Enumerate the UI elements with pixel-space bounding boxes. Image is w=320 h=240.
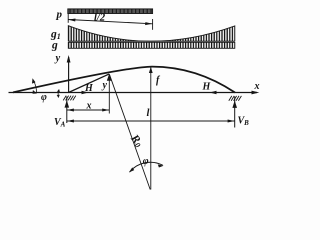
support B hatching — [229, 96, 242, 101]
svg-text:y: y — [102, 80, 108, 91]
svg-text:y: y — [54, 53, 61, 64]
load g1 curved hatched area — [68, 26, 235, 42]
reaction V_B arrow — [234, 97, 236, 128]
x-axis arrowhead — [252, 91, 260, 95]
label R0 — [127, 132, 145, 150]
thrust H at A arrow — [69, 92, 85, 94]
svg-text:φ: φ — [41, 92, 47, 103]
dimension l/2 left arrowhead — [68, 19, 75, 22]
svg-text:x: x — [254, 81, 260, 92]
dimension l/2 left tick — [67, 9, 69, 23]
ordinate arrowhead at M — [107, 74, 112, 81]
load g1 baseline — [68, 40, 235, 42]
svg-text:H: H — [202, 82, 212, 93]
center vertical line (f, l, vertex) — [150, 67, 152, 190]
angle arc phi at left — [33, 80, 37, 93]
svg-text:p: p — [56, 9, 63, 21]
support A hatching — [63, 96, 76, 101]
svg-text:g: g — [51, 40, 58, 52]
dimension l/2 right arrowhead — [145, 22, 152, 25]
svg-text:H: H — [84, 83, 94, 94]
dimension l/2 right tick — [152, 19, 154, 30]
x-axis — [9, 92, 258, 94]
radius R0 line — [109, 74, 150, 189]
ordinate y line at M — [108, 75, 110, 114]
angle arc phi at vertex — [130, 162, 163, 172]
svg-text:x: x — [86, 101, 92, 112]
small angle mark at origin A — [57, 90, 60, 98]
y-axis arrowhead — [67, 55, 71, 63]
y-axis — [68, 57, 70, 93]
load g uniform hatched bar — [68, 42, 235, 48]
svg-text:l: l — [147, 108, 150, 119]
thrust H at B arrow — [210, 92, 234, 94]
svg-text:l/2: l/2 — [94, 13, 106, 24]
f arrow tick at crown — [149, 67, 153, 73]
dimension x line — [67, 109, 110, 111]
load p hatched bar — [68, 9, 153, 14]
svg-text:φ: φ — [143, 156, 149, 167]
reaction V_A arrow — [66, 97, 68, 124]
cable curve — [13, 67, 235, 93]
dimension l/2 line — [68, 20, 152, 24]
tangent chord from origin to M — [69, 74, 110, 92]
dimension l line — [67, 120, 235, 122]
